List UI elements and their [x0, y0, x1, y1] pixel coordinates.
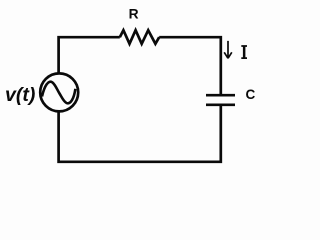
- wire: top wire from resistor to top-right corner, down to capacitor: [159, 37, 221, 94]
- voltage source V1 circle: [40, 73, 78, 111]
- svg-text:C: C: [246, 87, 256, 102]
- capacitor C1 top plate: [206, 94, 235, 97]
- wire: top-left corner run (left rail top stub + top wire to resistor): [59, 37, 120, 74]
- svg-text:R: R: [129, 7, 139, 22]
- resistor R: [120, 30, 159, 44]
- voltage source sine wave: [42, 82, 75, 104]
- wire: right rail below capacitor, bottom wire, left rail up to source: [59, 106, 221, 162]
- current arrow: [224, 41, 232, 58]
- capacitor C1 bottom plate: [206, 103, 235, 106]
- label I: [241, 45, 247, 59]
- svg-text:v(t): v(t): [5, 84, 35, 106]
